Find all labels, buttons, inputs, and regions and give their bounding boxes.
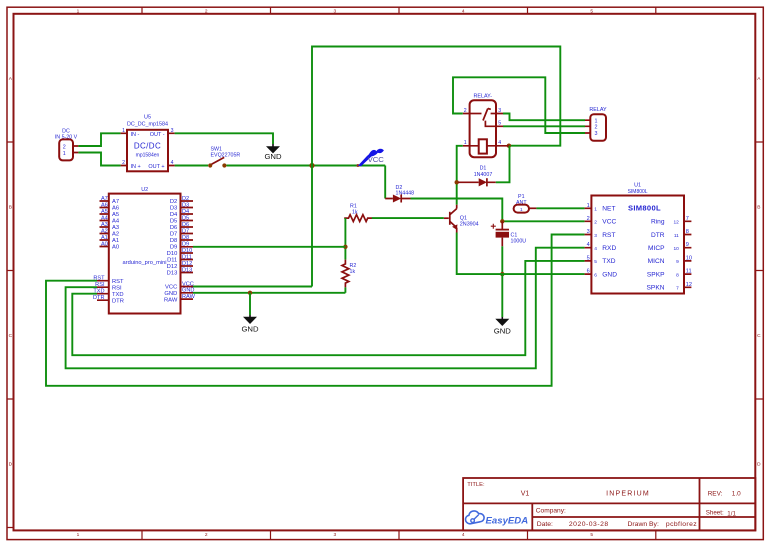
svg-text:1: 1 xyxy=(77,532,80,538)
svg-text:B: B xyxy=(757,204,760,210)
title block xyxy=(463,478,755,530)
EasyEDA logo xyxy=(466,511,529,526)
svg-text:D12: D12 xyxy=(167,264,178,270)
svg-text:A1: A1 xyxy=(112,238,119,244)
svg-text:RXD: RXD xyxy=(602,245,616,252)
svg-text:IN -: IN - xyxy=(131,132,140,138)
wire relay pin2 to connector RELAY pin3 xyxy=(453,77,585,133)
svg-text:1k: 1k xyxy=(350,269,356,275)
svg-text:A0: A0 xyxy=(112,245,119,251)
svg-text:D: D xyxy=(757,461,761,467)
wire Arduino D9 to R1/R2 xyxy=(193,246,345,248)
power flag VCC xyxy=(356,149,384,167)
svg-text:D11: D11 xyxy=(182,254,192,260)
svg-text:A3: A3 xyxy=(112,225,119,231)
svg-text:A4: A4 xyxy=(112,219,120,225)
svg-text:D4: D4 xyxy=(170,212,178,218)
junction C1 positive xyxy=(500,219,504,223)
junction D1 anode xyxy=(455,180,459,184)
wire VCC riser and top loop to relay pin 4 xyxy=(312,47,560,287)
svg-text:10: 10 xyxy=(673,246,679,252)
svg-text:9: 9 xyxy=(676,259,679,265)
junction C1 negative / GND rail xyxy=(500,272,504,276)
svg-text:D9: D9 xyxy=(170,245,177,251)
svg-text:A3: A3 xyxy=(101,222,108,228)
wire relay pin3 to connector RELAY pin1 xyxy=(503,114,585,121)
svg-text:MICP: MICP xyxy=(648,245,665,252)
svg-text:U2: U2 xyxy=(141,187,148,193)
svg-text:RST: RST xyxy=(602,232,615,239)
wire R2 bottom to Arduino GND wire xyxy=(344,287,346,292)
svg-text:D13: D13 xyxy=(167,271,178,277)
svg-text:A2: A2 xyxy=(101,228,108,234)
wire DC pin1 to U5 IN+ xyxy=(78,153,120,166)
svg-text:A5: A5 xyxy=(101,209,108,215)
resistor R2 1k xyxy=(342,260,356,288)
svg-text:11: 11 xyxy=(674,233,679,239)
svg-text:GND: GND xyxy=(264,152,282,161)
svg-text:D12: D12 xyxy=(182,261,192,267)
svg-text:1000U: 1000U xyxy=(511,239,527,245)
ground flag GND (Arduino) xyxy=(241,315,259,334)
transistor Q1 2N3904 xyxy=(444,205,479,233)
svg-text:D: D xyxy=(9,461,13,467)
junction D9 node xyxy=(343,245,347,249)
svg-text:7: 7 xyxy=(676,286,679,292)
svg-text:D7: D7 xyxy=(182,228,189,234)
svg-text:TXD: TXD xyxy=(602,258,615,265)
svg-text:Ring: Ring xyxy=(651,219,665,226)
svg-text:D10: D10 xyxy=(167,251,178,257)
wire U5 OUT+ to SW1 xyxy=(175,165,208,167)
wire R1/R2 vertical xyxy=(344,218,346,260)
svg-text:5: 5 xyxy=(590,8,593,14)
svg-text:A4: A4 xyxy=(101,215,108,221)
svg-text:2: 2 xyxy=(205,8,208,14)
wire D1 cathode to relay pin4 riser xyxy=(496,146,510,183)
wire C1 negative to GND rail xyxy=(501,246,503,274)
svg-text:1N4448: 1N4448 xyxy=(396,191,415,197)
svg-text:mp1584en: mp1584en xyxy=(136,153,160,159)
svg-text:IN +: IN + xyxy=(131,164,141,170)
wire U5 OUT- to GND xyxy=(175,133,273,144)
svg-text:D3: D3 xyxy=(170,206,177,212)
svg-text:pcbflorez: pcbflorez xyxy=(666,521,697,528)
svg-text:SIM800L: SIM800L xyxy=(628,203,661,212)
svg-text:VCC: VCC xyxy=(602,219,616,226)
svg-text:2N3904: 2N3904 xyxy=(460,222,479,228)
wire P1 to SIM800L NET xyxy=(536,207,584,209)
svg-text:OUT -: OUT - xyxy=(150,132,165,138)
svg-text:5: 5 xyxy=(594,259,597,265)
relay RELAY- xyxy=(463,94,509,158)
svg-text:D7: D7 xyxy=(170,232,177,238)
svg-text:3: 3 xyxy=(333,532,336,538)
svg-text:3: 3 xyxy=(594,233,597,239)
svg-text:D5: D5 xyxy=(170,219,177,225)
svg-text:D13: D13 xyxy=(182,267,192,273)
connector RELAY xyxy=(585,107,607,141)
svg-text:TITLE:: TITLE: xyxy=(467,482,485,488)
svg-text:D6: D6 xyxy=(182,222,189,228)
wire GND stem (Arduino) xyxy=(249,293,251,315)
capacitor C1 1000U xyxy=(491,221,526,246)
svg-text:5: 5 xyxy=(590,532,593,538)
svg-text:VCC: VCC xyxy=(182,281,194,287)
svg-text:A0: A0 xyxy=(101,241,108,247)
svg-text:D4: D4 xyxy=(182,209,189,215)
diode D2 1N4448 xyxy=(385,185,414,203)
svg-text:1: 1 xyxy=(520,207,523,212)
svg-text:RAW: RAW xyxy=(182,294,196,300)
svg-text:SPKP: SPKP xyxy=(647,271,665,278)
svg-text:1N4007: 1N4007 xyxy=(474,172,493,178)
svg-text:D10: D10 xyxy=(182,248,192,254)
wire Arduino GND to R2 xyxy=(193,292,345,294)
svg-text:D8: D8 xyxy=(170,238,177,244)
svg-text:EasyEDA: EasyEDA xyxy=(486,515,529,526)
junction Arduino GND xyxy=(248,291,252,295)
resistor R1 1k xyxy=(344,204,372,222)
svg-text:C: C xyxy=(757,333,761,339)
svg-text:Company:: Company: xyxy=(536,507,566,514)
svg-text:D9: D9 xyxy=(182,241,189,247)
svg-text:VCC: VCC xyxy=(368,155,385,164)
svg-text:8: 8 xyxy=(676,272,679,278)
svg-text:Date:: Date: xyxy=(537,521,553,528)
svg-text:MICN: MICN xyxy=(648,258,665,265)
svg-text:3: 3 xyxy=(595,131,598,137)
svg-text:A2: A2 xyxy=(112,232,119,238)
wire R1 to Q1 base xyxy=(372,217,444,219)
svg-text:U1: U1 xyxy=(634,183,641,189)
svg-text:4: 4 xyxy=(462,8,465,14)
svg-text:GND: GND xyxy=(494,326,512,335)
wire relay pin1 to Q1 collector xyxy=(457,146,463,205)
svg-text:Sheet:: Sheet: xyxy=(706,510,724,517)
svg-text:A7: A7 xyxy=(112,199,119,205)
svg-text:DTR: DTR xyxy=(651,232,665,239)
svg-text:VCC: VCC xyxy=(165,285,177,291)
svg-text:1: 1 xyxy=(63,151,66,157)
antenna connector P1 ANT xyxy=(514,194,537,213)
wire relay pin5 to connector RELAY pin2 xyxy=(503,125,585,127)
svg-text:RELAY: RELAY xyxy=(589,107,607,113)
svg-text:1: 1 xyxy=(77,8,80,14)
svg-text:A1: A1 xyxy=(101,235,108,241)
connector DC (DC IN 5-20 V) xyxy=(55,128,79,160)
svg-text:A7: A7 xyxy=(101,196,108,202)
svg-text:REV:: REV: xyxy=(708,490,723,497)
svg-text:2: 2 xyxy=(595,125,598,131)
DC/DC module U5 xyxy=(121,115,175,172)
wire GND stem (C1) xyxy=(501,274,503,317)
svg-text:GND: GND xyxy=(602,271,617,278)
svg-text:Drawn By:: Drawn By: xyxy=(628,521,659,528)
ground flag GND (C1) xyxy=(494,317,512,335)
wire Arduino VCC to VCC rail xyxy=(193,286,312,288)
svg-text:2: 2 xyxy=(63,145,66,151)
wire VCC rail xyxy=(227,165,386,167)
svg-text:D2: D2 xyxy=(170,199,177,205)
svg-text:DTR: DTR xyxy=(112,298,124,304)
svg-text:NET: NET xyxy=(602,206,615,213)
svg-text:GND: GND xyxy=(182,288,194,294)
svg-text:TXD: TXD xyxy=(112,292,124,298)
ground flag GND (U5 output) xyxy=(264,144,282,161)
svg-text:RELAY-: RELAY- xyxy=(474,94,493,100)
svg-text:OUT +: OUT + xyxy=(148,164,164,170)
svg-text:1.0: 1.0 xyxy=(732,490,741,497)
svg-text:1: 1 xyxy=(594,207,597,213)
wire net RST (Arduino RST to SIM800L RST) xyxy=(46,235,585,386)
svg-text:2: 2 xyxy=(205,532,208,538)
svg-text:D1: D1 xyxy=(480,166,487,172)
svg-text:6: 6 xyxy=(594,272,597,278)
svg-text:INPERIUM: INPERIUM xyxy=(606,491,650,498)
svg-text:SPKN: SPKN xyxy=(647,285,665,292)
svg-text:SIM800L: SIM800L xyxy=(628,189,648,195)
svg-text:D3: D3 xyxy=(182,202,189,208)
svg-text:A6: A6 xyxy=(112,206,119,212)
diode D1 1N4007 xyxy=(458,166,496,187)
svg-text:12: 12 xyxy=(673,220,679,226)
svg-text:1/1: 1/1 xyxy=(727,510,736,517)
svg-text:RSI: RSI xyxy=(112,285,122,291)
module U1 SIM800L xyxy=(585,183,692,294)
wire D2 cathode to SIM800L VCC xyxy=(411,199,585,222)
svg-text:A6: A6 xyxy=(101,202,108,208)
svg-text:DC_DC_mp1584: DC_DC_mp1584 xyxy=(127,122,168,128)
svg-text:U5: U5 xyxy=(144,115,151,121)
svg-text:C: C xyxy=(9,333,13,339)
svg-text:DTR: DTR xyxy=(93,295,105,301)
svg-text:arduino_pro_mini: arduino_pro_mini xyxy=(123,260,167,266)
svg-text:D6: D6 xyxy=(170,225,177,231)
svg-text:4: 4 xyxy=(594,246,597,252)
arduino U2 xyxy=(93,187,196,314)
svg-text:2020-03-28: 2020-03-28 xyxy=(569,521,609,528)
svg-text:B: B xyxy=(9,204,12,210)
svg-text:Q1: Q1 xyxy=(460,215,467,221)
svg-text:D5: D5 xyxy=(182,215,189,221)
wire GND rail (Q1 emitter to SIM800L GND) xyxy=(457,233,585,275)
svg-text:RAW: RAW xyxy=(164,297,178,303)
svg-text:GND: GND xyxy=(164,291,177,297)
junction relay pin4 xyxy=(507,144,511,148)
svg-text:D2: D2 xyxy=(182,196,189,202)
svg-text:EVQ22705R: EVQ22705R xyxy=(211,152,241,158)
svg-text:3: 3 xyxy=(333,8,336,14)
wire VCC rail to D2 anode xyxy=(384,166,386,199)
svg-text:V1: V1 xyxy=(521,491,530,498)
svg-text:1: 1 xyxy=(595,118,598,124)
junction VCC rail / Arduino VCC riser xyxy=(309,163,314,168)
svg-text:RST: RST xyxy=(112,279,124,285)
svg-text:A5: A5 xyxy=(112,212,119,218)
svg-text:2: 2 xyxy=(594,220,597,226)
svg-text:DC/DC: DC/DC xyxy=(134,142,161,151)
svg-text:D8: D8 xyxy=(182,235,189,241)
wire net TXD (Arduino TXD to SIM800L TXD) xyxy=(72,261,584,355)
wire DC pin2 to U5 IN- xyxy=(78,133,120,146)
switch SW1 EVQ22705R xyxy=(208,147,240,168)
svg-text:D11: D11 xyxy=(167,258,177,264)
wire net RSI (Arduino RSI to SIM800L RXD) xyxy=(66,248,585,369)
svg-text:4: 4 xyxy=(462,532,465,538)
svg-text:GND: GND xyxy=(241,325,259,334)
